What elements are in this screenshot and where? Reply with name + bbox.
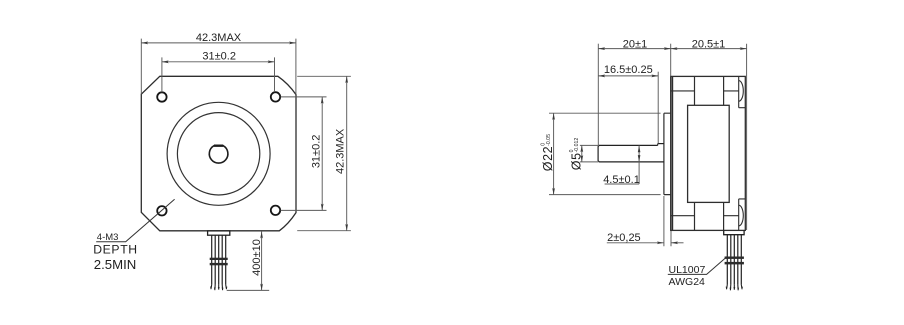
svg-text:UL1007: UL1007 xyxy=(669,264,706,276)
boss circle xyxy=(177,113,259,195)
dimension 16.5±0.25 line xyxy=(598,75,658,77)
front plate inner edge (thick) xyxy=(671,76,673,230)
shaft bottom line xyxy=(599,161,664,163)
right wire tie band 1 xyxy=(725,257,744,259)
extension line shaft tip (20 / 16.5) xyxy=(597,44,599,145)
dimension 20.5±1 line xyxy=(671,48,747,50)
4.5 arrows xyxy=(638,145,641,152)
extension line body front above xyxy=(670,44,672,77)
svg-text:400±10: 400±10 xyxy=(251,239,263,276)
dimension 42.3MAX right vertical: dimension line xyxy=(346,76,348,230)
dimension 31±0.2 top: extension lines xyxy=(162,57,275,92)
motor front face square outline with chamfered corners xyxy=(141,76,296,231)
wires xyxy=(212,235,226,284)
UL1007 leader xyxy=(668,256,728,274)
4-M3 leader line xyxy=(96,199,174,241)
svg-text:Ø50-0.012: Ø50-0.012 xyxy=(569,138,583,171)
stator mid rectangle xyxy=(688,105,730,202)
svg-text:31±0.2: 31±0.2 xyxy=(310,135,322,169)
mounting hole top-right xyxy=(271,92,280,101)
svg-text:42.3MAX: 42.3MAX xyxy=(335,128,347,174)
dimension 2±0,25 leader left with arrow xyxy=(607,242,664,244)
svg-text:31±0.2: 31±0.2 xyxy=(202,51,236,63)
dimension 31±0.2 right vertical: extension lines xyxy=(281,97,327,210)
dimension 4.5±0.1 leader xyxy=(605,145,640,184)
2±0,25 extension lines xyxy=(664,196,671,246)
svg-text:2±0,25: 2±0,25 xyxy=(607,232,641,244)
shaft flat top line xyxy=(599,144,658,146)
dimension 31±0.2 top: dimension line xyxy=(162,61,275,63)
shaft full-dia top line xyxy=(658,143,664,145)
endcap joint line front xyxy=(694,76,696,230)
shaft outline xyxy=(598,145,599,162)
mounting hole bottom-right xyxy=(271,206,280,215)
svg-text:2.5MIN: 2.5MIN xyxy=(94,257,137,272)
wire tie band 2 xyxy=(210,263,228,265)
Ø22 extension lines xyxy=(549,113,661,194)
dimension Ø22 line xyxy=(553,113,555,194)
extension line flat end xyxy=(657,72,659,144)
mounting hole bottom-left xyxy=(157,206,166,215)
shaft step at end of flat xyxy=(657,144,659,146)
rear corner box bottom xyxy=(739,199,746,231)
right wire tie band 2 xyxy=(725,262,744,265)
dimension 31±0.2 right vertical: dimension line xyxy=(321,97,323,210)
rear corner box top xyxy=(739,76,746,107)
dimension 20±1 line xyxy=(598,48,670,50)
right wire frayed ends xyxy=(727,285,743,291)
dimension 2±0,25 right arrow xyxy=(671,242,683,244)
svg-text:20.5±1: 20.5±1 xyxy=(692,38,726,50)
right lead-wire connector block xyxy=(724,230,744,234)
dimension 400±10: dimension line xyxy=(261,232,263,291)
Ø5 extension lines xyxy=(580,145,598,162)
right wires xyxy=(727,235,741,285)
pilot boss front face xyxy=(664,113,671,194)
svg-text:Ø220-0.05: Ø220-0.05 xyxy=(541,134,555,171)
svg-text:20±1: 20±1 xyxy=(623,38,647,50)
dimension 42.3MAX top: extension lines xyxy=(141,39,296,95)
rear slot arc top xyxy=(739,81,744,102)
svg-text:16.5±0.25: 16.5±0.25 xyxy=(604,64,653,76)
extension line body rear xyxy=(746,44,748,230)
inner horizontal step lines xyxy=(671,91,739,216)
svg-text:42.3MAX: 42.3MAX xyxy=(196,32,242,44)
svg-text:4.5±0.1: 4.5±0.1 xyxy=(603,174,640,186)
rear slot arc bottom xyxy=(739,205,744,226)
svg-text:DEPTH: DEPTH xyxy=(93,242,138,256)
dimension 400±10: extension line xyxy=(227,289,270,291)
svg-text:AWG24: AWG24 xyxy=(669,276,706,288)
lead-wire connector block xyxy=(208,231,230,235)
motor body outline xyxy=(671,76,746,230)
shaft circle with D-flat xyxy=(209,146,228,163)
dimension Ø5 line xyxy=(581,145,583,162)
endcap joint line rear xyxy=(723,76,725,230)
dimension 42.3MAX top: dimension line xyxy=(141,42,296,44)
dimension 42.3MAX right vertical: extension lines xyxy=(297,76,351,230)
mounting hole top-left xyxy=(157,92,166,101)
wire tie band 1 xyxy=(210,258,228,260)
outer pilot circle xyxy=(167,102,270,205)
wire frayed ends xyxy=(211,285,227,291)
